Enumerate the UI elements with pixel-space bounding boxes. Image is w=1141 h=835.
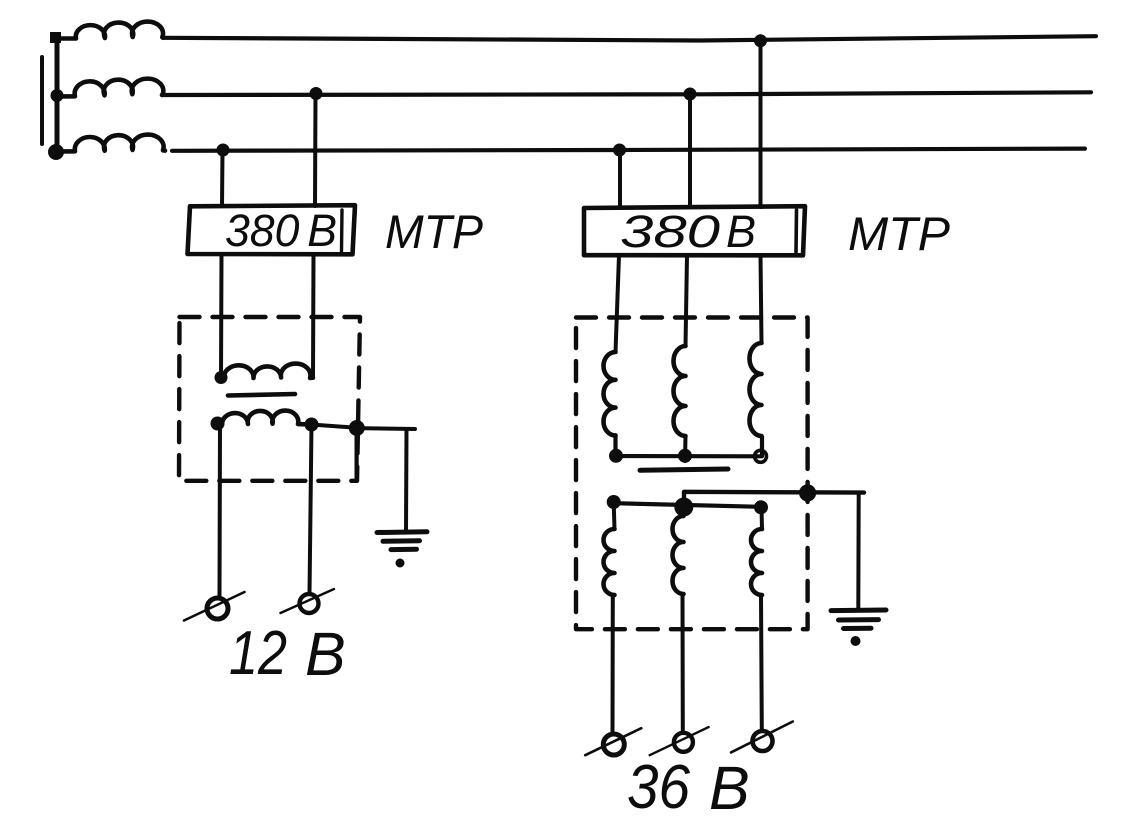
ground (left) bar 1 [377, 529, 427, 535]
wire: T2 secondary 1 drop [612, 503, 617, 529]
bus line 1 (top phase) [163, 36, 1096, 40]
terminal X5 slash [731, 722, 793, 753]
node: tap dot on bus 3 (right T) [613, 144, 626, 157]
wire: bus2 to right box [688, 94, 692, 207]
wire: T2 neutral link to ground [684, 492, 864, 508]
wire: vertical down to right ground [856, 493, 860, 609]
terminal X2 circle [300, 594, 319, 613]
node: T1 secondary middle tap dot [305, 418, 319, 432]
bus line 2 (middle phase) [162, 92, 1091, 95]
node: T2 bushing dot on dashed edge [799, 484, 816, 501]
terminal X2 slash [281, 589, 335, 613]
svg-text:МТР: МТР [385, 205, 484, 258]
terminal X4 slash [650, 727, 709, 755]
wire: T2 secondary head bus [614, 503, 761, 507]
terminal X3 circle [603, 734, 624, 755]
T2 primary winding 3 [750, 343, 762, 436]
T2 secondary winding 1 [604, 529, 615, 595]
transformer T2 dashed enclosure [576, 318, 808, 630]
node: junction bottom-left [48, 144, 64, 160]
ground (left) dot mark [396, 559, 405, 568]
wire: T2 primary star bus [616, 436, 763, 457]
source neutral bus vertical wire [55, 37, 60, 155]
node: star dot 1 [609, 449, 623, 463]
wire: left box to T1 primary left lead [219, 255, 224, 378]
node: star dot 2 [678, 449, 692, 463]
node: T2 secondary dot 2 (big) [674, 498, 693, 517]
node: tap dot on bus 2 (left T) [310, 87, 323, 100]
box 380V left [188, 205, 356, 254]
node: corner junction top-left [50, 32, 61, 43]
ground (right) bar 3 [844, 626, 872, 631]
svg-text:В: В [726, 206, 756, 257]
T2 primary winding 1 [604, 352, 616, 435]
terminal X5 circle [753, 731, 773, 751]
node: star ring 3 [755, 450, 767, 462]
node: junction middle-left [51, 89, 64, 102]
wire: bus3 to right box [618, 150, 622, 207]
wire: T2 output lead 2 [681, 594, 685, 733]
source winding phase B [58, 79, 163, 97]
T1 enclosure solid segment below bushing dot [355, 433, 359, 480]
wire: bushing to ground corner [364, 426, 415, 431]
T1 secondary winding [222, 411, 311, 425]
node: tap dot on bus 2 (right T) [684, 88, 697, 101]
terminal X3 slash [585, 728, 641, 755]
svg-text:380: 380 [620, 206, 720, 257]
source winding phase C [59, 135, 165, 152]
wire: right box to T2 primary lead 2 [686, 256, 688, 347]
wire: T1 secondary to enclosure bushing [318, 425, 357, 428]
svg-text:12: 12 [229, 619, 287, 688]
node: T1 primary left dot [215, 371, 228, 384]
ground (right) bar 2 [839, 617, 879, 622]
terminal X1 circle [207, 598, 228, 619]
T2 core bar [640, 469, 728, 470]
wire: T1 output lead 1 [218, 424, 223, 598]
T1 core bar [228, 394, 295, 396]
transformer T1 dashed enclosure [179, 317, 360, 481]
wire: T2 primary 2 to star [683, 436, 688, 461]
terminal X4 circle [674, 733, 693, 752]
node: tap dot on bus 1 (right T) [754, 34, 767, 47]
box 380V left inner right stroke [340, 210, 344, 251]
box 380V right inner right stroke [794, 210, 798, 252]
ground (left) bar 3 [391, 547, 417, 552]
T2 primary winding 2 [674, 346, 686, 436]
node: T2 secondary dot 1 [607, 495, 621, 509]
T2 secondary winding 3 [751, 529, 762, 595]
svg-text:В: В [709, 754, 750, 822]
node: T2 secondary dot 3 [754, 500, 768, 514]
node: T1 secondary left dot [211, 417, 225, 431]
T1 primary winding [224, 364, 313, 379]
bus line 3 (bottom phase) [172, 149, 1085, 151]
wire: left box to T1 primary right lead [311, 255, 316, 379]
wire: bus3 to left box [220, 150, 225, 206]
terminal X1 slash [184, 592, 245, 621]
source core bar [40, 57, 44, 144]
node: tap dot on bus 3 (left T) [217, 144, 230, 157]
wire: T2 output lead 1 [611, 595, 615, 734]
svg-text:380В: 380В [225, 205, 337, 256]
wire: vertical down to left ground [404, 429, 409, 532]
wire: bus2 to left box [313, 94, 318, 207]
ground (left) bar 2 [383, 538, 420, 544]
svg-text:36: 36 [627, 753, 690, 822]
box 380V right [584, 206, 805, 255]
svg-text:МТР: МТР [848, 207, 951, 260]
T2 secondary winding 2 [673, 516, 684, 594]
source winding phase A [58, 22, 163, 39]
node: T1 bushing dot on dashed edge [349, 420, 365, 436]
ground (right) bar 1 [831, 608, 886, 614]
wire: bus1 to right box [759, 41, 763, 207]
wire: T2 output lead 3 [759, 595, 764, 731]
ground (right) dot mark [851, 636, 861, 646]
svg-text:В: В [305, 620, 346, 688]
wire: right box to T2 primary lead 3 [761, 256, 762, 344]
wire: right box to T2 primary lead 1 [616, 256, 620, 353]
wire: T2 secondary 3 drop [760, 507, 765, 529]
wire: T1 output lead 2 [310, 425, 312, 594]
